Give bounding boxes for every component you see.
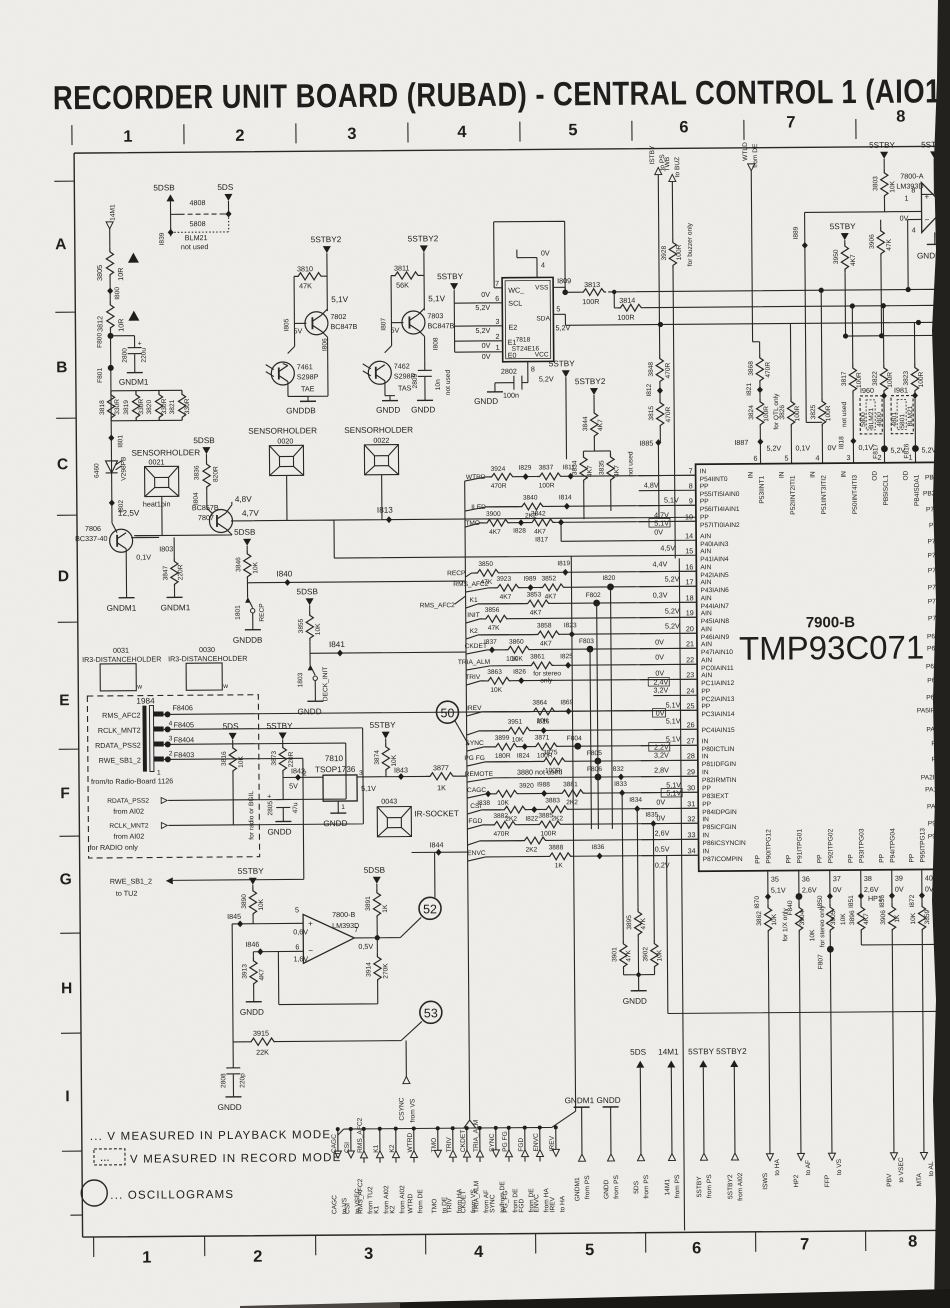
resistor 3856 47K <box>483 607 509 632</box>
node F816 <box>903 443 936 462</box>
stack ISTBY: resistor 3848 470R <box>648 354 672 384</box>
fan signal WTRD from DE <box>407 1126 425 1213</box>
node 5STBY (op-amp) <box>921 140 945 181</box>
resistor 3864 10K <box>530 699 556 724</box>
resistor 3915 22K <box>233 1021 422 1056</box>
wire sensor 0020 drop <box>286 475 288 520</box>
resistor 3805 10R <box>95 248 125 281</box>
resistor 3821 330R <box>169 390 191 420</box>
wire row IREV/pin25 <box>481 710 697 712</box>
node I846 <box>245 939 303 956</box>
eeprom pin 4 top <box>517 248 550 277</box>
node I800 <box>107 278 121 301</box>
resistor 3904 10K for stereo only <box>795 896 828 1153</box>
chain 3951 to pin26 <box>467 731 506 735</box>
node 5DS (3816) <box>223 722 240 744</box>
wire row TRIA_ALM/pin22 <box>490 664 697 666</box>
supply 14M1 from PS <box>658 1047 681 1198</box>
connector CSYNC from VS <box>398 1040 417 1122</box>
chain TRIA_ALM to pin22 <box>458 659 490 670</box>
ic bottom pin vertical names <box>754 828 926 864</box>
wire row pin26 <box>479 729 698 731</box>
node I814 <box>559 494 572 510</box>
wire long vertical bus <box>679 558 684 1230</box>
chain FGD to pin32 <box>467 818 491 829</box>
fan signal CSI to VSEC <box>344 1127 362 1214</box>
node F805 <box>587 750 602 765</box>
resistor 3923 4K7 <box>494 576 520 601</box>
node I828 <box>513 519 526 535</box>
resistor 3834 4K7 <box>571 451 594 519</box>
resistor 3844 4K7 <box>582 409 610 451</box>
capacitor 2808 220p <box>220 1042 246 1097</box>
resistor 3846 10K <box>235 550 259 598</box>
wire net I835 drop <box>667 853 950 1013</box>
connector ISTBY to PS <box>649 145 668 355</box>
ferrite 5800/BLM21/4800 dashed box <box>860 396 883 434</box>
wire row REMOTE/pin29 <box>493 776 698 778</box>
wire row ENVC/pin34 <box>486 855 699 857</box>
node I833 <box>614 781 627 797</box>
fan signal K1 from AI02 <box>373 1127 391 1214</box>
wire row RECP/pin16 <box>471 571 696 573</box>
chain CSI to pin31 <box>467 803 501 814</box>
resistor 3803 10K <box>872 169 896 212</box>
node 5STBY (3950) <box>830 222 857 242</box>
stack pin5: resistor 3826 100R <box>778 323 810 463</box>
node I837 <box>484 639 497 654</box>
ground GNDD (2809) <box>411 400 435 414</box>
ic bottom pin stubs <box>768 869 922 895</box>
ic left voltage column <box>644 480 682 869</box>
resistor 3820 330R <box>146 390 168 420</box>
node I960 <box>860 386 887 400</box>
node I816 <box>537 718 550 734</box>
node 5DSB (3891) <box>364 866 386 889</box>
resistor 3895 47K <box>625 809 647 975</box>
node 5DSB top <box>153 183 175 201</box>
resistor 3852 4K7 <box>539 575 565 600</box>
node I835 <box>645 812 658 828</box>
wire lower right rail <box>843 333 948 339</box>
oscillogram circle 53 <box>420 1001 442 1023</box>
resistor 3877 1K <box>426 763 467 792</box>
op-amp U7800-A LM393D <box>884 171 945 234</box>
resistor 3902 10K <box>641 824 663 975</box>
resistor 3906 47K <box>869 220 894 336</box>
wire trunk2 vertical <box>571 556 575 1111</box>
wire row RMS_AFC2/pin17 <box>489 586 697 588</box>
wire net F803 drop <box>590 649 591 829</box>
chain ENVC to pin34 <box>467 850 486 861</box>
resistor 3920 10K <box>493 783 534 807</box>
resistor 3863 10K <box>485 669 511 694</box>
signal RMS_AFC2 from left <box>420 596 466 609</box>
resistor 3840 2K2 <box>519 494 545 519</box>
IR3-distanceholder 0030 <box>168 645 248 691</box>
node F803 <box>579 638 594 653</box>
resistor 3950 4K7 <box>833 242 858 336</box>
wire row PG_FG/pin28 <box>485 760 698 762</box>
resistor 3859 10K <box>910 895 933 1152</box>
inductor 5808 BLM21 (not used) <box>168 214 229 251</box>
capacitor 2805 47u <box>267 791 299 821</box>
wire fan trunk <box>459 481 476 1128</box>
supply 5STBY2 from AI02 <box>716 1047 748 1201</box>
node 5STBY2 (7803) <box>408 234 440 310</box>
stack pin2: resistor 3822 100R <box>871 303 894 463</box>
ground GNDM1 (7806) <box>107 598 137 613</box>
fan signal PG_FG from DE <box>502 1126 520 1213</box>
wire I813 (4,7V rail) <box>249 503 696 559</box>
node I838 <box>477 790 491 807</box>
chain CAGC to pin30 <box>467 787 486 798</box>
phototransistor 7461 S298P TAE <box>265 319 329 396</box>
wire 3915 node down <box>231 924 234 1042</box>
node I887 <box>734 438 781 463</box>
node I821 <box>746 383 763 398</box>
node I840 <box>247 568 465 586</box>
sensorholder 0021 <box>131 448 200 536</box>
switch 1803 DECK_INIT <box>297 665 329 701</box>
chain INIT to pin19 <box>466 612 483 623</box>
oscillogram circle 52 <box>419 897 441 919</box>
scan dark wedge bottom <box>370 1289 950 1308</box>
node I841 <box>310 639 466 657</box>
fan signal IREV to HA <box>549 1125 567 1212</box>
node I801 <box>108 421 124 458</box>
node 5DS top <box>217 183 234 201</box>
resistor 3883 2K2 <box>543 797 569 822</box>
signal RDATA_PSS2 from AI02 <box>107 743 347 816</box>
resistor 3871 100R <box>533 734 559 759</box>
wire fan comb bus <box>338 1111 576 1135</box>
ground GNDD (7810) <box>323 813 347 828</box>
signal ISWS to HA <box>762 1154 781 1190</box>
oscillogram circle 50 <box>436 701 468 745</box>
signal FFP to VS <box>824 1153 843 1187</box>
scan paper grain <box>0 0 1 1</box>
eeprom U7818 ST24E16 <box>502 277 554 361</box>
resistor 3815 470R <box>648 398 672 442</box>
resistor 3896 4K7 <box>849 895 950 945</box>
resistor 3899 180R <box>493 735 519 760</box>
node I869 <box>560 699 573 715</box>
chain RMS_AFC2 to pin17 <box>453 581 489 592</box>
node F800 <box>96 331 113 391</box>
wire row TRIV/pin23 <box>480 679 697 681</box>
chain pin33 resistor 2K2 <box>467 837 547 854</box>
stack pin6: resistor 3868 470R <box>748 342 772 384</box>
capacitor 2800 220u <box>111 336 148 373</box>
stack pin4: resistor 3825 100R <box>809 288 836 464</box>
left row ticks <box>54 181 82 1215</box>
legend playback mode <box>90 1129 332 1143</box>
border frame <box>74 146 949 1237</box>
node 5STBY (3803) <box>869 141 896 169</box>
chain K1 to pin18 <box>466 597 525 608</box>
resistor 3814 100R <box>617 296 643 322</box>
signal PBV to VSEC <box>886 1153 905 1187</box>
resistor 3873 220R <box>271 743 295 795</box>
ic boxed voltages <box>647 518 682 797</box>
legend oscillograms <box>81 1179 234 1206</box>
ground GNDM1 (cap 2800) <box>119 373 149 387</box>
resistor 3901 47K <box>610 793 632 975</box>
node 5STBY2 (rowB right) <box>575 377 606 409</box>
ground GNDD (op-amp A) <box>908 219 944 289</box>
bottom grid ticks <box>94 1230 946 1257</box>
eeprom pin 5 SDA <box>553 304 570 332</box>
signal HP2 to AF <box>793 1153 812 1187</box>
wire E-net <box>565 320 937 328</box>
node I843 <box>394 766 408 781</box>
node F8403 <box>164 749 303 762</box>
resistor 3824 100R for QTL only <box>748 393 781 464</box>
ground GNDD (2805) <box>267 821 291 836</box>
wire row WTRD/pin7 <box>486 475 696 477</box>
stack pin3: resistor 3817 100R <box>840 303 863 463</box>
node I989 <box>523 576 536 592</box>
phototransistor 7462 S298P TAS <box>362 318 440 396</box>
resistor 3860 10K <box>505 639 531 663</box>
wire net I820 drop <box>611 587 613 829</box>
node I809 <box>553 276 571 295</box>
node I988 <box>537 781 550 797</box>
ground GNDD (7462) <box>376 396 400 415</box>
transistor 7802 BC847B <box>283 295 357 362</box>
fan signal TMO to DE <box>431 1126 449 1213</box>
node F8405 <box>164 719 363 733</box>
ground GNDD from PS <box>597 1096 622 1199</box>
node I885 wire <box>639 439 662 519</box>
top grid ticks <box>72 119 856 145</box>
node I823 <box>564 622 577 638</box>
node I872 <box>909 892 925 908</box>
bottom grid numbers <box>142 1233 917 1267</box>
resistor 3888 1K <box>547 844 573 869</box>
resistor 3811 56K <box>391 263 424 318</box>
switch 1801 RECP <box>235 598 266 630</box>
resistor 3882b 2K2 <box>501 806 527 823</box>
resistor 3862 10K for 1/X only <box>756 897 791 1154</box>
LED V298PB 6460 <box>93 456 127 485</box>
node I812 <box>646 383 663 398</box>
fan signal TRIA_ALM from AF <box>473 1120 491 1213</box>
node I981 <box>894 386 918 400</box>
resistor 3813 100R <box>580 280 606 306</box>
resistor 3816 10K <box>221 744 246 825</box>
chain WTRD to pin7 <box>465 474 486 481</box>
ground GNDM1 from PS <box>565 1096 596 1201</box>
node 5DSB (3846) <box>234 528 256 550</box>
node I825 <box>560 653 573 669</box>
eeprom pin 8 VCC <box>528 361 554 383</box>
resistor 3855 10K <box>298 611 322 665</box>
fan signal RMS_AFC2 from TU2 <box>357 1117 375 1214</box>
node F801 <box>97 365 114 383</box>
op-amp U7800-B LM393D <box>293 905 373 964</box>
wire row CAGC/pin30 <box>486 792 698 794</box>
signal RCLK_MNT2 from AI02 <box>89 728 364 852</box>
resistor 3874 10K <box>373 742 426 776</box>
ground GNDD (2808) <box>218 1097 242 1112</box>
scan dark band right edge <box>932 0 950 1308</box>
ground GNDD (3913) <box>240 1002 264 1017</box>
wire row ILED/pin9 <box>486 505 696 507</box>
wire row INIT/pin19 <box>480 617 697 619</box>
stack pin1: resistor 3823 100R <box>902 322 925 462</box>
resistor 3885 100R <box>536 812 562 837</box>
resistor 3861 10K <box>506 653 561 684</box>
fan signal ENVC from HA <box>533 1125 551 1212</box>
wire row FGD/pin32 <box>482 823 698 825</box>
resistor 3913 4K7 <box>241 957 265 1002</box>
transistor 7806 BC337-40 <box>75 508 174 598</box>
wire SCL net <box>612 287 937 314</box>
node F804 <box>567 735 582 750</box>
wire row CKDET/pin21 <box>487 648 697 650</box>
node F807 <box>817 946 834 970</box>
sensorholder 0020 <box>248 426 317 476</box>
chain RECP to pin16 <box>447 570 474 577</box>
node F8406 <box>163 699 690 717</box>
node 5STBY (3873) <box>267 721 294 743</box>
resistor 3924 470R <box>489 466 515 490</box>
node I850 <box>817 893 833 909</box>
chain REMOTE to pin29 <box>465 767 563 782</box>
resistor 3951 10K <box>506 719 532 744</box>
resistor 3882 470R <box>491 813 517 838</box>
ic bottom pin numbers and voltages <box>771 873 934 903</box>
ferrite 4801/5801/BLM21 dashed box <box>891 396 914 434</box>
ground GNDD (3902) <box>623 972 655 1005</box>
fan signal SYNC to/from DE <box>489 1126 507 1213</box>
signal RWE_SB1_2 to TU2 <box>109 758 304 898</box>
resistor 3900 4K7 <box>484 511 510 536</box>
node I834 <box>629 797 642 813</box>
wire row CSI/pin31 <box>481 808 698 810</box>
node I826 <box>513 669 526 685</box>
node I820 <box>602 575 615 591</box>
transistor 7803 BC847B <box>380 294 454 361</box>
op-amp output wire <box>354 917 421 940</box>
receiver 7810 TSOP1736 <box>315 754 376 813</box>
IR-socket 0043 <box>377 796 459 837</box>
node 5STBY (3874) <box>370 721 397 743</box>
node I824 <box>517 743 530 760</box>
node I844 <box>411 840 467 897</box>
resistor 3890 10K <box>241 887 265 924</box>
connector 14M1 <box>106 204 117 248</box>
node I889 <box>793 212 887 423</box>
resistor 3853 4K7 <box>525 591 551 616</box>
ground GNDM1 (3847) <box>161 597 191 612</box>
chain SYNC to pin27 <box>465 740 492 751</box>
ground GNDD (2802) <box>474 392 503 406</box>
resistor 3836 820R <box>193 454 219 514</box>
ic U7900-B TMP93C071 body <box>696 462 950 871</box>
warning triangle 2 <box>128 311 139 321</box>
legend record mode <box>94 1147 342 1166</box>
resistor 3837 100R <box>537 464 563 489</box>
ground GNDD (1803) <box>297 701 323 716</box>
connector 1984 <box>136 696 164 776</box>
node F817 <box>872 443 905 462</box>
chain K2 to pin20 <box>466 628 535 640</box>
wire net F802 drop <box>597 603 599 829</box>
node F806 <box>587 766 602 781</box>
node 5STBY (eeprom) <box>437 272 478 352</box>
ic left pin numbers <box>685 466 696 855</box>
node I836 <box>592 844 605 860</box>
transistor 7807 BC857B <box>136 495 260 536</box>
inductor 4808 dashed (not used) <box>170 198 231 232</box>
resistor 3818 330R <box>99 391 121 421</box>
node I842 <box>283 766 323 790</box>
wire row SYNC/pin27 <box>484 745 698 747</box>
fan signal K2 from AI02 <box>389 1127 407 1214</box>
wire rails 330R bank <box>111 390 182 421</box>
chain TMO to pin10 <box>465 520 484 527</box>
fan signal CKDET from VS <box>460 1126 478 1213</box>
supply 5STBY from PS <box>688 1047 716 1198</box>
node I822 <box>525 806 538 823</box>
wire sensor 0022 drop <box>381 475 383 520</box>
node 5DSB (3836) <box>193 436 215 454</box>
resistor 3810 47K <box>294 264 327 319</box>
resistor 3850 47K <box>474 561 500 586</box>
top grid numbers <box>123 108 905 146</box>
capacitor 2809 10n not used <box>412 360 452 400</box>
node I832 <box>611 766 624 781</box>
fan signal CAGC to VS <box>331 1127 349 1214</box>
node I829 <box>519 465 532 481</box>
wire SDA net <box>565 287 937 300</box>
eeprom pin stubs left <box>475 221 566 361</box>
fan signal TRIV from HA <box>446 1126 464 1213</box>
ic top pin vertical names <box>748 470 921 515</box>
ground GNDDB (1801) <box>233 630 263 645</box>
node F802 <box>586 592 601 607</box>
wire row K1/pin18 <box>478 602 697 604</box>
resistor 3812 10R <box>95 301 125 332</box>
node I856 <box>879 892 895 908</box>
ground GNDDB (7461) <box>286 361 328 415</box>
node 5STBY2 (7802) <box>311 235 343 311</box>
connector pin labels <box>95 711 141 765</box>
resistor 3914 270K <box>278 938 390 1005</box>
resistor 3835 4K7 <box>598 451 620 511</box>
connector TWB to BUZ <box>664 156 682 238</box>
capacitor 2802 100n <box>495 367 528 400</box>
node I851 <box>848 893 864 909</box>
wire row pin33 <box>480 839 699 841</box>
node 5DSB (3855) <box>297 587 319 611</box>
resistor 3847 220R <box>162 537 184 597</box>
node I811 <box>563 464 576 479</box>
chain TRIV to pin23 <box>465 674 485 685</box>
resistor 3875 100R <box>541 749 567 774</box>
resistor 3906b 1K <box>880 896 903 1153</box>
warning triangle 1 <box>128 253 139 263</box>
resistor 3842 4K7 <box>529 510 555 535</box>
resistor 3905 10K <box>826 896 849 1153</box>
resistor 3858 4K7 <box>535 622 561 647</box>
ic left pin stubs <box>639 475 699 855</box>
chain ILED to pin9 <box>465 504 519 511</box>
sensorholder 0022 <box>344 425 413 475</box>
